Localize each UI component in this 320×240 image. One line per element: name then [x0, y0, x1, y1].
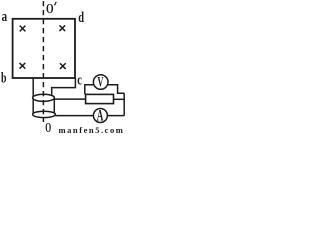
wire ammeter right lead	[107, 115, 124, 117]
svg-text:b: b	[1, 69, 7, 85]
background	[0, 0, 127, 134]
svg-text:a: a	[2, 9, 8, 25]
svg-text:A: A	[97, 106, 104, 124]
flux mark x bottom-left	[20, 63, 26, 69]
svg-text:manfen5.com: manfen5.com	[59, 125, 125, 134]
wire right side vertical	[123, 93, 125, 115]
svg-text:O: O	[46, 2, 54, 17]
wire coil lead left (b side) down to slip rings	[32, 78, 34, 114]
slip ring upper	[33, 94, 55, 101]
wire voltmeter left lead	[85, 85, 94, 95]
wire upper brush to resistor	[54, 98, 85, 100]
coil rectangle abcd	[13, 19, 75, 78]
flux mark x bottom-right	[60, 63, 66, 69]
ammeter A	[93, 109, 107, 123]
resistor R box	[86, 94, 114, 103]
wire voltmeter right lead	[108, 85, 124, 94]
axis OO' dashed line	[42, 1, 44, 122]
wire coil lead right (c side) step down to upper slip ring	[52, 78, 76, 95]
svg-text:d: d	[78, 9, 84, 25]
slip ring lower	[33, 111, 56, 117]
flux mark x top-right	[59, 25, 65, 31]
voltmeter V	[93, 75, 108, 90]
wire resistor right lead	[114, 98, 125, 100]
wire lower brush to ammeter	[55, 115, 93, 117]
wire slip ring cylinder right wall	[53, 98, 55, 114]
svg-text:V: V	[97, 73, 103, 90]
svg-text:O: O	[45, 121, 51, 134]
flux mark x top-left	[20, 26, 26, 32]
svg-text:c: c	[77, 72, 82, 88]
